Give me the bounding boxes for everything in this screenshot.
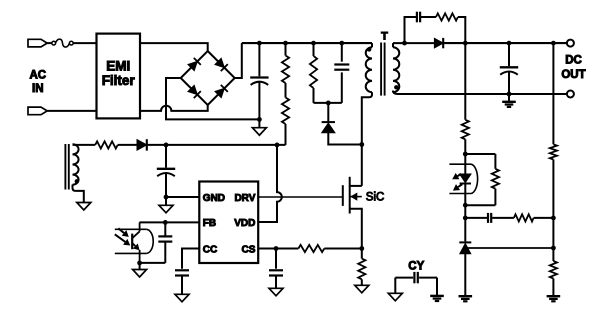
node bus-bulkcap [257,41,262,46]
svg-text:OUT: OUT [561,69,585,81]
node compensation-left [463,216,468,221]
wire DRV pin to MOSFET gate [258,196,343,198]
svg-text:AC: AC [29,69,46,81]
resistor R5 opto series [462,120,469,140]
node bulk-cap negative / bridge minus [257,117,262,122]
wire bridge - output to primary ground node [166,78,259,119]
inductor L1 auxiliary winding core [64,144,66,190]
wire bottom terminal to EMI [47,110,96,112]
wire IC GND pin [166,196,199,198]
svg-text:DRV: DRV [234,193,255,204]
node emitter [137,261,142,266]
diode D7 aux rectifier [137,140,147,151]
node output-cap-bottom [507,92,512,97]
resistor R3 clamp [313,43,315,56]
optocoupler U3 LED capsule outline [449,163,471,165]
resistor R4 output snubber [436,13,458,20]
terminal: AC input bottom connector [28,107,47,115]
wire secondary top to output diode [392,43,394,47]
fuse F1 [52,41,56,45]
node diode-snubber-right [463,41,468,46]
resistor R2 startup lower [282,98,289,125]
resistor R10 aux series [95,141,118,148]
optocoupler U3 capsule outline [115,228,146,230]
wire TL431 reference to divider midpoint [468,247,554,249]
transformer T core [380,43,382,96]
terminal DC OUT minus [567,91,574,98]
wire EMI top output to bridge [140,43,208,51]
transistor Q1 SiC MOSFET gate bar [342,185,344,206]
optocoupler U3 phototransistor (primary side) [139,222,141,231]
node secondary-snubber-left [402,41,407,46]
capacitor C6 VDD (polarised) [165,145,167,168]
transistor Q1 drain stub [350,185,362,187]
inductor L1 auxiliary winding [73,144,79,184]
wire terminal-to-fuse [47,42,52,44]
svg-text:GND: GND [203,193,225,204]
transformer T secondary winding [393,47,399,92]
svg-text:DC: DC [565,55,582,67]
wire divider middle [552,218,554,261]
ground primary (source shunt) [355,285,369,293]
svg-text:VDD: VDD [234,218,255,229]
svg-text:SiC: SiC [366,192,385,204]
node bus-clampR [311,41,316,46]
node drain-clamp [359,142,364,147]
transformer T primary polarity dot [367,47,371,51]
wire output rail down to opto feedback branch [464,43,466,120]
transistor Q1 source stub [350,209,362,249]
resistor R1 startup upper [285,43,287,55]
resistor R8 divider upper [550,144,557,159]
capacitor C1 bulk electrolytic [258,43,260,76]
wire DC bus (rectified high-voltage rail) [242,42,372,44]
EMI filter block U2 [97,34,141,119]
svg-text:CS: CS [241,244,255,255]
ground secondary (divider) [552,279,554,296]
ground primary (VDD cap) [165,197,167,205]
node compensation-right [551,216,556,221]
ground primary (CY) [388,293,402,301]
wire clamp RC bottom [314,102,342,104]
wire aux winding bottom to ground [73,185,84,203]
optocoupler U3 LED emission arrows [458,174,462,176]
wire clamp diode to drain line [328,133,362,145]
capacitor C4 output electrolytic [508,43,510,66]
node bus-divider [283,41,288,46]
capacitor C9 CS filter [275,249,277,269]
svg-text:T: T [381,30,388,42]
wire snubber to diode cathode [458,17,465,43]
capacitor C3 output snubber [405,17,417,43]
diode D5 clamp (points up) [327,103,329,122]
wire CY right to secondary ground [436,278,438,296]
wire between startup resistors [285,83,287,98]
svg-text:CC: CC [203,244,217,255]
wire VDD feed down to pin (with crossover hop) [258,145,282,222]
ground secondary (CY) [430,295,444,297]
svg-text:EMI: EMI [106,59,130,74]
capacitor C5 compensation [465,217,487,219]
node vdd-cap-bottom / IC GND [164,195,169,200]
terminal: AC input top connector [28,39,47,47]
bridge diode D4 (lower-right, points to right vertex) [215,88,224,97]
wire FB pin to optocoupler [139,221,199,223]
wire CS resistor to source [324,248,362,250]
ground primary (CC cap) [175,294,189,302]
resistor R7 compensation [492,217,514,219]
wire FB cap bottom to emitter [140,262,166,264]
svg-text:CY: CY [408,260,424,272]
ground primary (bulk cap) [258,119,260,127]
wire startup resistor to VDD rail [285,124,287,145]
transistor Q1 channel bar [349,177,351,214]
ground primary (aux winding) [77,203,91,211]
transistor Q1 body arrow [350,196,362,198]
svg-text:FB: FB [203,218,216,229]
svg-text:IN: IN [32,83,44,95]
node bus-clampC [339,41,344,46]
node divider-ref [551,246,556,251]
wire EMI bottom output to bridge (with crossover hop) [140,105,208,111]
resistor R12 CS series [298,245,324,252]
controller IC U1 [199,182,258,264]
node output-cap-top [507,41,512,46]
transformer T secondary polarity dot [394,85,398,89]
wire primary bottom to MOSFET drain [362,92,372,186]
ground primary (opto emitter) [139,263,141,270]
capacitor C2 clamp [341,43,343,62]
bridge rectifier BR1 diamond [181,51,235,105]
capacitor C7 FB filter [164,222,166,235]
wire output rail down to voltage divider [552,43,554,144]
node MOSFET source / CS [359,246,364,251]
auxiliary winding polarity dot [75,179,79,183]
node FB-cap [163,220,168,225]
resistor R11 current sense shunt [358,259,365,280]
wire CC pin to capacitor [182,249,199,269]
node opto-led-bottom [463,203,468,208]
wire secondary return line [393,91,567,95]
shunt regulator U4 TL431 (drawn as diode) [459,241,471,243]
node CS [274,246,279,251]
resistor R9 divider lower [550,261,557,279]
diode D6 output rectifier [434,38,443,48]
node opto-led-top [463,152,468,157]
node aux-cap-top [164,143,169,148]
wire CY left to primary ground [394,278,396,294]
wire VDD rail [147,144,286,146]
wire resistor to diode [118,144,137,146]
svg-text:Filter: Filter [102,73,136,88]
wire bridge + output to DC bus [235,43,242,78]
node clamp-diode [326,101,331,106]
optocoupler U3 incoming light arrows [118,228,124,233]
terminal DC OUT plus [567,40,574,47]
wire fuse-to-EMI [73,42,96,44]
wire opto branch down to TL431 [464,205,466,241]
node output-divider-top [551,41,556,46]
node vdd-feed [275,143,280,148]
ground secondary (output cap) [508,94,510,102]
bridge diode D1 (upper-left, points to top vertex) [188,61,197,70]
capacitor CY Y-cap [395,277,413,279]
resistor R6 opto parallel [465,153,495,155]
ground primary (CS cap) [269,288,283,296]
bridge diode D3 (lower-left, points to bottom vertex) [188,85,197,94]
bridge diode D2 (upper-right, points to right vertex) [215,58,224,67]
transformer T primary winding [371,43,373,47]
optocoupler U3 LED (secondary side) [464,154,466,174]
wire aux winding to resistor [73,144,96,146]
wire CS pin [258,248,298,250]
ground secondary (TL431 anode) [459,295,473,297]
capacitor C8 CC [175,269,189,271]
